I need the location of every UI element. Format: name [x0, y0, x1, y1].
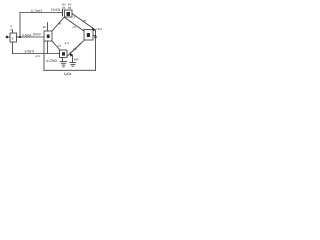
ground GND1: [60, 62, 67, 67]
source box G1: [10, 33, 17, 42]
wire diagonal T1 to right rail: [72, 14, 96, 31]
resistor box R1 (right arm): [84, 30, 93, 41]
component box T1 (top): [65, 10, 73, 17]
svg-text:4b: 4b: [58, 22, 62, 26]
svg-text:35: 35: [62, 6, 66, 10]
node junction A: [19, 36, 21, 38]
wire R1 lead right: [93, 35, 96, 37]
arrowhead at B: [70, 53, 74, 57]
node stub above Z1: [43, 23, 48, 32]
wire diagonal R1 to B upper: [70, 41, 84, 54]
capacitor bar C1: [62, 10, 64, 16]
wire G1 bottom riser: [12, 42, 14, 54]
node junction right rail: [95, 36, 97, 38]
wire bottom: [13, 53, 60, 55]
wire diagonal T1 to R box: [65, 18, 85, 32]
svg-text:Va: Va: [73, 47, 77, 51]
wire riser left: [19, 13, 21, 38]
wire loop bottom: [44, 69, 96, 71]
wire diagonal Z1 to T: [52, 18, 64, 32]
wire diagonal R1 to B lower: [68, 44, 81, 57]
svg-text:yd: yd: [83, 19, 87, 23]
svg-text:t-1Ω: t-1Ω: [96, 27, 103, 31]
svg-text:1d: 1d: [58, 44, 62, 48]
svg-text:k=2%Ω: k=2%Ω: [47, 59, 58, 63]
svg-text:2N05: 2N05: [51, 8, 61, 12]
ground GND2: [70, 63, 76, 67]
wire junction A to Z1: [20, 36, 44, 38]
wire top: [20, 12, 62, 14]
arrowhead at rail: [92, 27, 96, 31]
svg-text:1-d: 1-d: [65, 41, 70, 45]
svg-text:10mV: 10mV: [33, 33, 42, 37]
wire diagonal Z1 to B: [52, 41, 60, 50]
svg-text:MA: MA: [74, 58, 79, 62]
wire right rail: [95, 30, 97, 70]
svg-text:a=1: a=1: [36, 54, 41, 58]
wire Z1 bottom stub: [47, 41, 49, 54]
svg-text:s: s: [12, 37, 14, 41]
wire stub at x72: [72, 56, 74, 62]
wire loop left: [43, 41, 45, 70]
svg-text:2k: 2k: [43, 25, 47, 29]
svg-text:cA: cA: [73, 25, 77, 29]
node stub above G1: [10, 24, 13, 33]
wire G1 right to junction: [17, 36, 21, 38]
wire B1 bottom stub: [62, 58, 64, 62]
resistor box Z1 (left arm): [44, 31, 52, 41]
svg-text:1μΩs: 1μΩs: [64, 72, 72, 76]
svg-text:a-5y%: a-5y%: [25, 50, 35, 54]
svg-text:05: 05: [68, 6, 72, 10]
component box B1 (bottom): [60, 50, 68, 58]
svg-text:4.7mH: 4.7mH: [31, 9, 43, 13]
terminal dot J1: [6, 36, 10, 38]
